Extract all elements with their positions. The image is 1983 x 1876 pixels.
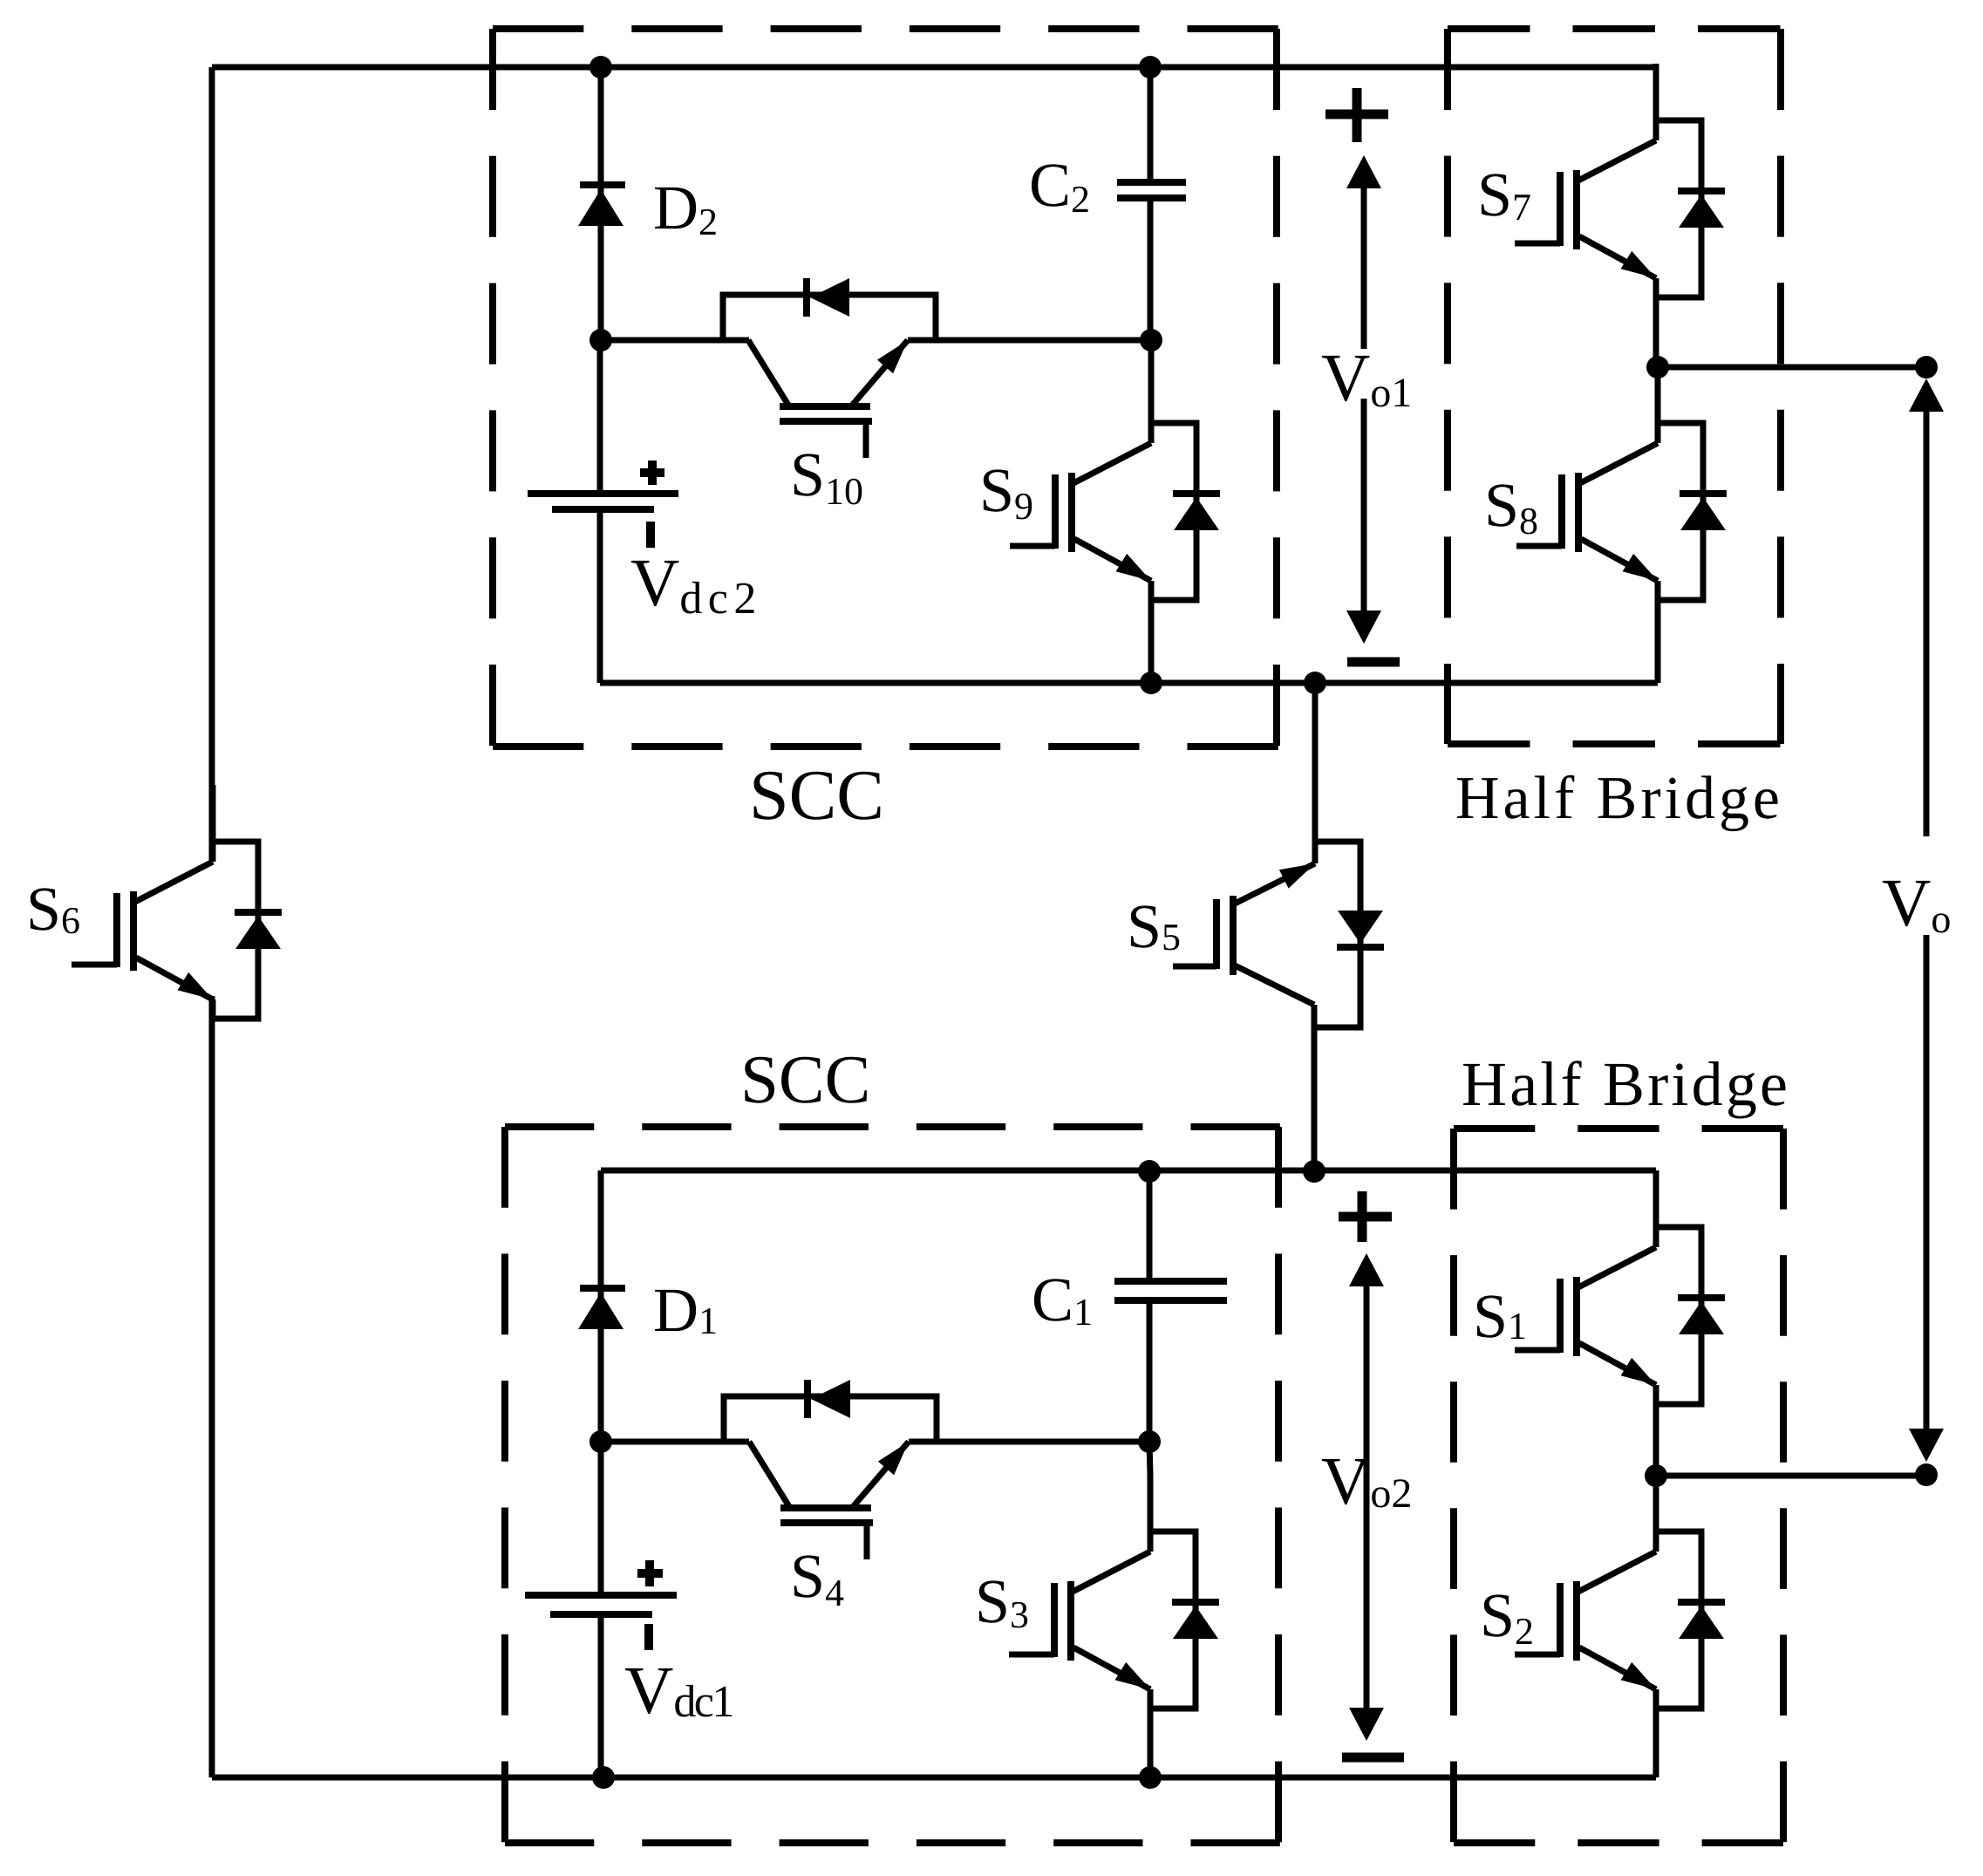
diode D1 xyxy=(578,1170,625,1442)
wire node rail bottom-right xyxy=(909,1439,1149,1445)
battery Vdc1 xyxy=(525,1442,677,1777)
node A (D2 / S10 / Vdc2) xyxy=(589,329,612,351)
wire output bottom xyxy=(1656,1473,1926,1479)
wire left rail upper xyxy=(209,67,215,862)
wire top rail xyxy=(212,65,1656,71)
svg-text:Half Bridge: Half Bridge xyxy=(1462,1049,1788,1119)
wire node rail top-left xyxy=(601,338,749,344)
capacitor C2 xyxy=(1117,67,1186,340)
transistor S4 xyxy=(601,1380,937,1559)
node Vo top xyxy=(1915,356,1938,379)
svg-text:S5: S5 xyxy=(1127,891,1181,961)
svg-text:S6: S6 xyxy=(26,874,80,944)
svg-text:S9: S9 xyxy=(979,455,1033,528)
svg-text:C1: C1 xyxy=(1032,1265,1093,1334)
junction S7/S8 output xyxy=(1646,356,1669,379)
arrow Vo xyxy=(1909,379,1944,1462)
junction D2 / top rail xyxy=(589,56,612,78)
wire rail2 (bottom section top rail) xyxy=(601,1168,1656,1174)
svg-text:S3: S3 xyxy=(975,1566,1029,1636)
transistor S7 xyxy=(1515,64,1725,367)
wire node rail top-right xyxy=(908,338,1151,344)
svg-text:Vdc2: Vdc2 xyxy=(630,544,756,624)
node B2 (C1 / S4 / S3) xyxy=(1138,1430,1161,1453)
transistor S1 xyxy=(1515,1170,1725,1476)
dashed box Half Bridge (top) xyxy=(1448,29,1781,744)
junction C2 / top rail xyxy=(1139,56,1162,78)
transistor S9 xyxy=(1010,340,1220,683)
svg-text:SCC: SCC xyxy=(749,755,884,835)
svg-text:Vo: Vo xyxy=(1882,864,1951,941)
wire bottom rail of top section xyxy=(600,680,1658,686)
wire left rail lower xyxy=(209,996,215,1777)
transistor S5 xyxy=(1173,683,1384,1171)
junction Vdc1 / bottom rail xyxy=(592,1766,615,1789)
svg-text:S2: S2 xyxy=(1480,1580,1534,1653)
transistor S8 xyxy=(1516,366,1727,683)
svg-text:Vo2: Vo2 xyxy=(1321,1443,1412,1518)
wire bottom rail xyxy=(212,1775,1656,1781)
diode D2 xyxy=(578,67,625,340)
junction S5 collector / rail2 xyxy=(1303,1160,1325,1183)
dashed box SCC (bottom) xyxy=(505,1127,1280,1843)
transistor S3 xyxy=(1009,1442,1219,1777)
dashed box SCC (top) xyxy=(493,29,1278,747)
arrow Vo2 xyxy=(1339,1191,1404,1757)
junction S9 emitter / mid rail xyxy=(1140,672,1162,694)
junction S1/S2 output xyxy=(1645,1464,1667,1487)
svg-text:D2: D2 xyxy=(653,173,718,243)
arrow Vo1 xyxy=(1325,88,1400,662)
junction C1 / rail2 xyxy=(1138,1160,1161,1183)
wire output top xyxy=(1656,365,1926,371)
capacitor C1 xyxy=(1114,1170,1227,1442)
svg-text:SCC: SCC xyxy=(740,1042,870,1118)
svg-text:S8: S8 xyxy=(1484,470,1538,542)
svg-text:S4: S4 xyxy=(790,1541,844,1614)
junction S3 emitter / bottom rail xyxy=(1139,1766,1162,1789)
transistor S2 xyxy=(1515,1475,1725,1777)
svg-text:S7: S7 xyxy=(1477,160,1531,229)
battery Vdc2 xyxy=(528,340,678,683)
svg-text:Vo1: Vo1 xyxy=(1321,339,1412,416)
svg-text:Half Bridge: Half Bridge xyxy=(1455,765,1780,832)
svg-text:S1: S1 xyxy=(1473,1281,1527,1351)
wire node rail bottom-left xyxy=(601,1439,749,1445)
junction S5 emitter tap / mid rail xyxy=(1304,672,1326,694)
transistor S6 xyxy=(72,785,282,1019)
node B (C2 / S10 / S9) xyxy=(1140,329,1162,351)
svg-text:D1: D1 xyxy=(653,1275,718,1345)
node A2 (D1 / S4 / Vdc1) xyxy=(589,1430,612,1453)
node Vo bottom xyxy=(1915,1463,1938,1486)
svg-text:C2: C2 xyxy=(1029,150,1090,221)
svg-text:Vdc1: Vdc1 xyxy=(624,1652,734,1728)
transistor S10 xyxy=(600,278,936,458)
dashed box Half Bridge (bottom) xyxy=(1454,1129,1783,1843)
svg-text:S10: S10 xyxy=(790,440,863,513)
